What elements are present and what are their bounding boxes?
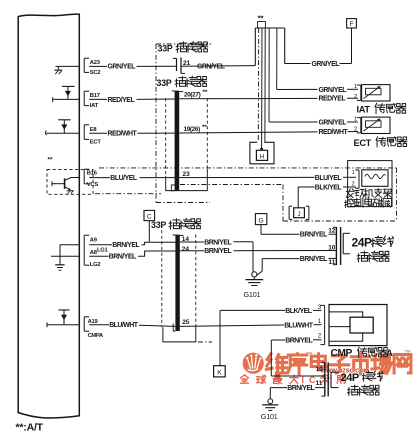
terminal A9-LG1 / A8-LG2 <box>83 235 85 265</box>
connector G box <box>255 214 266 225</box>
svg-text:VCS: VCS <box>87 182 99 188</box>
svg-text:**:A/T: **:A/T <box>16 422 44 434</box>
terminal A19/CMPA <box>83 317 85 331</box>
connector C box <box>144 210 155 220</box>
svg-text:10: 10 <box>316 366 324 373</box>
24P connector symbol (lower) <box>324 362 326 396</box>
svg-text:19(26): 19(26) <box>184 126 201 133</box>
svg-text:G: G <box>259 217 264 224</box>
wire C to LG1 ground wire <box>148 221 150 243</box>
connector 33P #3 bottom hook <box>173 323 175 331</box>
svg-text:20(27): 20(27) <box>184 91 201 98</box>
svg-text:B17: B17 <box>90 93 100 99</box>
svg-text:K: K <box>217 370 222 377</box>
svg-text:2: 2 <box>354 94 357 100</box>
wire RED/WHT from E8 <box>89 132 107 134</box>
solenoid outer option box <box>348 161 392 207</box>
terminal B17/IAT <box>83 91 85 105</box>
svg-text:A9: A9 <box>90 238 98 244</box>
IAT sensor box <box>362 85 390 101</box>
wire GRN/YEL from A23 to 33P <box>89 65 107 67</box>
svg-text:33P: 33P <box>158 44 173 54</box>
connector K box <box>214 366 226 377</box>
svg-text:BRN/YEL: BRN/YEL <box>112 242 139 249</box>
harness boundary dash-dot top tail <box>156 43 211 45</box>
solenoid connector bracket <box>358 170 360 188</box>
harness boundary dash-dot segment below VCS box <box>95 193 161 195</box>
svg-text:BLU/WHT: BLU/WHT <box>284 322 314 329</box>
svg-text:BRN/YEL: BRN/YEL <box>204 248 231 255</box>
wire BLU/YEL from B16 to solenoid <box>89 177 110 179</box>
svg-text:2: 2 <box>318 333 322 340</box>
svg-text:F: F <box>349 21 353 28</box>
svg-text:A: A <box>386 347 393 358</box>
svg-text:H: H <box>260 154 265 161</box>
wire BRN/YEL G to 24P pin 12 <box>260 225 262 235</box>
svg-text:BRN/YEL: BRN/YEL <box>300 256 327 263</box>
connector 33P pin 21 <box>176 58 178 71</box>
svg-text:BLK/YEL: BLK/YEL <box>285 308 312 315</box>
wire BLK/YEL solenoid to J <box>298 186 314 188</box>
ECT sensor box <box>362 117 390 133</box>
connector J <box>288 206 290 219</box>
wire W6 GRN/YEL to IAT <box>276 28 278 90</box>
wire W2 dash-dot to H connector <box>257 28 259 142</box>
svg-text:BLU/YEL: BLU/YEL <box>315 175 342 182</box>
wire RED/YEL from B17 <box>89 98 107 100</box>
engine mount control solenoid label <box>346 189 354 198</box>
terminal A23/SC2 <box>83 58 85 72</box>
svg-text:3: 3 <box>318 304 322 311</box>
ECU internal diode/pull-up at A19/CMPA <box>47 324 79 326</box>
wire BRN/YEL LG2 to 24P pin 10 <box>89 255 108 257</box>
svg-text:IAT: IAT <box>357 105 371 115</box>
dashed connector enclosure 33P #3 <box>161 225 163 328</box>
svg-text:G101: G101 <box>261 412 278 421</box>
wire BRN/YEL CMP pin2 <box>271 339 285 341</box>
svg-text:LG1: LG1 <box>97 247 109 253</box>
connector H box <box>250 142 274 164</box>
svg-text:A8: A8 <box>90 250 98 256</box>
connector 33P #3 bar <box>175 235 179 331</box>
wire BRN/YEL LG1 to G101 <box>89 244 112 246</box>
ECU internal diode/pull-up at B17 <box>53 98 80 100</box>
svg-text:11: 11 <box>329 259 336 266</box>
connector 33P bar <box>175 91 180 191</box>
24P connector symbol (upper) <box>335 227 337 265</box>
watermark big text weiku dianzi shichangwang <box>267 349 411 374</box>
svg-text:G101: G101 <box>244 290 261 299</box>
connector 33P bottom hook <box>171 185 174 191</box>
svg-text:LG2: LG2 <box>90 262 101 268</box>
wire BLK/YEL CMP to K <box>220 309 285 311</box>
wire W5 GRN/YEL to ECT <box>268 28 270 122</box>
connector F box <box>347 19 357 28</box>
wire RED/YEL from 33P to IAT <box>179 97 317 99</box>
svg-text:GRN/YEL: GRN/YEL <box>319 120 347 127</box>
GRN/YEL bridge bus <box>255 27 284 29</box>
terminal E8/ECT <box>83 125 85 140</box>
svg-text:10: 10 <box>328 244 336 251</box>
ground G101 (bottom) <box>268 399 273 404</box>
svg-text:25: 25 <box>182 319 190 326</box>
svg-text:GRN/YEL: GRN/YEL <box>197 63 225 70</box>
svg-text:1: 1 <box>352 170 355 176</box>
svg-text:**: ** <box>203 89 208 96</box>
svg-text:BLK/YEL: BLK/YEL <box>315 185 342 192</box>
svg-text:TM: TM <box>306 351 312 356</box>
svg-text:ECT: ECT <box>90 140 102 146</box>
svg-text:GRN/YEL: GRN/YEL <box>319 87 347 94</box>
svg-text:GRN/YEL: GRN/YEL <box>312 61 340 68</box>
bridge bracket <box>258 22 266 28</box>
svg-text:BRN/YEL: BRN/YEL <box>287 385 314 392</box>
svg-text:BLU/WHT: BLU/WHT <box>109 322 139 329</box>
svg-text:24P: 24P <box>341 372 359 384</box>
dashed option box around VCS driver <box>47 170 93 195</box>
solenoid coil box <box>362 170 388 187</box>
harness boundary dash-dot segment lower <box>156 202 210 204</box>
svg-text:24: 24 <box>182 246 190 253</box>
svg-text:CMPA: CMPA <box>88 333 104 339</box>
wire W4 to H connector <box>264 28 266 142</box>
wire BRN/YEL 24P pin11 to G101 <box>262 258 299 260</box>
harness boundary dash-dot horizontal upper <box>99 167 397 169</box>
bridge left leg <box>254 28 256 66</box>
svg-text:A23: A23 <box>90 60 101 66</box>
ECU internal ground jumper at LG1/LG2 <box>60 244 79 246</box>
terminal B16/VCS <box>83 169 85 184</box>
svg-text:BRN/YEL: BRN/YEL <box>204 239 231 246</box>
wire BRN/YEL 24P lower pin11 to G101 <box>270 387 287 389</box>
dash-dot tail at bottom of 33P connector C <box>198 341 212 343</box>
svg-text:RED/WHT: RED/WHT <box>319 129 349 136</box>
svg-text:E8: E8 <box>90 127 98 133</box>
ECM/PCM connector bar (left) <box>18 14 79 418</box>
svg-text:24P: 24P <box>352 235 373 249</box>
svg-text:**: ** <box>48 157 54 164</box>
ECU internal transistor at B16/VCS <box>52 183 65 185</box>
svg-text:2: 2 <box>354 126 357 132</box>
svg-text:1: 1 <box>354 84 357 90</box>
svg-text:RED/WHT: RED/WHT <box>108 131 138 138</box>
svg-text:BRN/YEL: BRN/YEL <box>300 232 327 239</box>
wire RED/WHT from 33P to ECT <box>179 132 317 133</box>
svg-text:1: 1 <box>318 318 322 325</box>
wire BLU/WHT A19 to CMP <box>89 324 109 326</box>
A/T option dash-dot wire from 33P to solenoid region <box>180 184 283 186</box>
harness boundary dash-dot vertical right <box>396 168 398 221</box>
svg-text:ECT: ECT <box>354 138 372 148</box>
svg-text:B16: B16 <box>87 170 98 176</box>
ground G101 (middle) <box>252 272 257 277</box>
CMP sensor box <box>329 305 387 346</box>
svg-text:RED/YEL: RED/YEL <box>319 96 346 103</box>
svg-text:GRN/YEL: GRN/YEL <box>108 64 136 71</box>
svg-text:1: 1 <box>354 117 357 123</box>
watermark small red text quanqiu zuida IC caigouwang <box>240 375 345 385</box>
ECU internal ground at SC2 <box>56 65 80 67</box>
svg-text:11: 11 <box>316 380 323 387</box>
svg-text:J: J <box>297 211 300 218</box>
harness boundary dash-dot vertical left <box>155 44 157 203</box>
svg-text:33P: 33P <box>151 220 166 230</box>
dashed connector enclosure 33P #2 <box>165 98 167 176</box>
svg-text:TM: TM <box>405 349 411 354</box>
CMP sensor connector bracket <box>324 305 326 344</box>
watermark logo circle (dzsc) <box>243 353 264 374</box>
IAT sensor connector bracket <box>360 85 362 100</box>
svg-text:CMP: CMP <box>331 348 353 359</box>
ECT sensor connector bracket <box>360 118 362 133</box>
svg-text:BLU/YEL: BLU/YEL <box>110 175 137 182</box>
svg-text:BRN/YEL: BRN/YEL <box>109 254 136 261</box>
svg-text:**: ** <box>202 124 207 131</box>
bridge right leg to F <box>284 28 286 64</box>
svg-text:SC2: SC2 <box>90 70 101 76</box>
svg-text:33P: 33P <box>157 78 172 88</box>
wire W3 to H connector with arrow <box>261 28 263 149</box>
svg-text:RED/YEL: RED/YEL <box>108 97 135 104</box>
ECU internal diode/pull-up at E8 <box>46 132 79 134</box>
svg-text:12: 12 <box>328 228 336 235</box>
wire GRN/YEL from 33P to bridge <box>181 65 255 68</box>
svg-text:BRN/YEL: BRN/YEL <box>285 337 312 344</box>
svg-text:IAT: IAT <box>90 103 99 109</box>
